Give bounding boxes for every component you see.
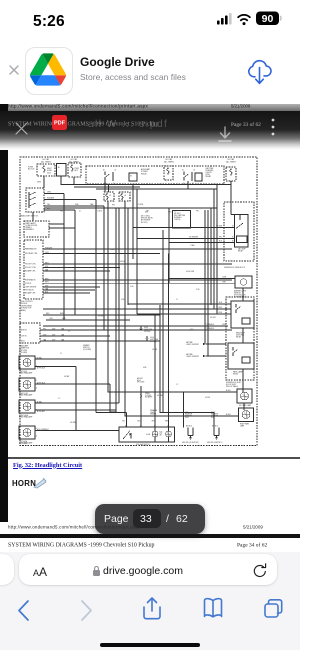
wire: right low beam feed A PPL/BLK [35, 383, 110, 385]
svg-text:T-0508: T-0508 [22, 443, 27, 445]
svg-text:FOG/TAIL IN: FOG/TAIL IN [25, 289, 34, 292]
wire: left high beam feed A DK GRN/WHT [35, 430, 119, 432]
wire row RED/BRN [43, 314, 160, 316]
overflow dots [269, 117, 277, 139]
svg-text:SP05 GRD (OR SUPPORT): SP05 GRD (OR SUPPORT) [182, 442, 199, 444]
svg-text:87: 87 [192, 183, 194, 185]
svg-text:BLOCK): BLOCK) [141, 222, 148, 224]
svg-text:C 1: C 1 [60, 353, 62, 355]
bulb: fog indicator lamp [166, 431, 172, 437]
underhood fuse block (dashed, right) [224, 202, 254, 261]
wire: relay K2 pin down [187, 181, 189, 189]
junction block B1 [57, 164, 67, 177]
diagram outer border [20, 157, 257, 446]
svg-text:AMBIENT LIGHT: AMBIENT LIGHT [234, 290, 246, 293]
wire: fuse F1 to headlight switch [43, 176, 45, 188]
svg-text:RUNNING: RUNNING [174, 217, 182, 219]
svg-text:SPEAKER: SPEAKER [150, 409, 158, 412]
svg-text:LT GRN/BLK: LT GRN/BLK [205, 328, 215, 330]
auxiliary power relay K1 contact [104, 172, 106, 175]
wire: left low beam feed B TAN [35, 358, 96, 360]
svg-text:C150: C150 [196, 289, 200, 291]
wire bundle (center-left verticals) [107, 201, 109, 392]
DRL support arrow 2 [206, 355, 226, 357]
wire: right high beam feed B TAN [35, 402, 119, 404]
svg-text:ORG: ORG [37, 182, 42, 184]
svg-text:HDLAMP CTRL: HDLAMP CTRL [25, 270, 36, 273]
right park lamp housing [239, 408, 254, 422]
horizontal rule under diagram [8, 457, 301, 459]
svg-text:LO: LO [109, 195, 112, 197]
wire: bottom feed to ground connector C1 [183, 392, 185, 428]
svg-text:WHT: WHT [45, 282, 49, 284]
faint download arrow [216, 125, 234, 145]
svg-text:SP06 GRD (SUPPORT L): SP06 GRD (SUPPORT L) [207, 442, 223, 444]
svg-text:A: A [36, 409, 37, 412]
svg-text:PARK LAMPS: PARK LAMPS [26, 222, 36, 225]
headlight switch S1 (dashed box) [26, 188, 44, 212]
svg-text:ILLUM: ILLUM [146, 434, 151, 436]
svg-text:C100: C100 [130, 286, 134, 288]
svg-text:TAN: TAN [90, 203, 94, 206]
wire: switch output to lamps [44, 199, 96, 201]
svg-text:SWITCH: SWITCH [83, 347, 90, 349]
svg-text:B: B [36, 380, 37, 382]
svg-text:(GROUND): (GROUND) [236, 335, 245, 337]
wire: fog switch GRY feed [154, 314, 156, 427]
svg-text:FOG/TLP CTRL: FOG/TLP CTRL [25, 264, 36, 266]
wire: left park lamp to right park lamp stub [243, 403, 245, 410]
bus wire (horizontal 3) [44, 207, 217, 209]
svg-text:FOG LAMP SWITCH: FOG LAMP SWITCH [136, 443, 149, 446]
svg-text:LEFT LOW: LEFT LOW [19, 371, 27, 373]
svg-text:C 2: C 2 [176, 384, 178, 386]
relay R1 (tail lamp relay) [235, 215, 249, 248]
wire: bottom feed to ground connector C2 [213, 413, 215, 428]
svg-text:DIMMER: DIMMER [83, 345, 90, 347]
svg-text:UNDERHOOD FUSE BLOCK: UNDERHOOD FUSE BLOCK [224, 267, 246, 269]
svg-text:0.5 BLK: 0.5 BLK [205, 397, 210, 399]
svg-text:LT GRN: LT GRN [137, 204, 144, 206]
wifi icon [238, 15, 250, 20]
svg-text:DRL RELAY CTRL: DRL RELAY CTRL [25, 252, 38, 255]
svg-text:LT BLU: LT BLU [97, 211, 102, 213]
svg-text:WIRING: WIRING [26, 227, 33, 229]
svg-text:HI/LO: HI/LO [137, 380, 142, 382]
svg-text:0.8 TAN: 0.8 TAN [64, 375, 69, 378]
svg-text:GRN: GRN [62, 318, 66, 320]
svg-text:SUPPORT: SUPPORT [211, 415, 218, 417]
note text (W/ DRL) box [173, 211, 191, 229]
svg-text:30: 30 [194, 170, 196, 172]
printed page title seen through overlay [8, 120, 218, 127]
lamp: right low beam headlamp housing [19, 378, 35, 391]
underhood electrical block (dashed, right lower) [226, 297, 254, 380]
svg-text:S236: S236 [143, 367, 147, 369]
fog lamp switch box [119, 427, 175, 442]
body control module connector (dashed box) [24, 240, 43, 299]
svg-text:HI/LO: HI/LO [21, 341, 26, 343]
svg-text:ALL TIMES: ALL TIMES [164, 160, 174, 163]
wire: switch bottom stub [32, 212, 34, 221]
auxiliary power relay K1 coil [129, 173, 137, 181]
svg-text:LIGHTS SUPPORT: LIGHTS SUPPORT [186, 356, 199, 358]
svg-text:0.8 RED: 0.8 RED [98, 316, 103, 318]
svg-text:RIGHT LOW: RIGHT LOW [19, 393, 28, 395]
svg-text:A PPL/BLK: A PPL/BLK [37, 381, 46, 384]
wire: switch output ORG [44, 193, 64, 195]
cellular signal bars [217, 13, 232, 25]
lamp bulb: right low beam [23, 381, 31, 389]
fuse F5 (dashed, mid) [104, 192, 114, 201]
svg-text:A DK GRN/WHT: A DK GRN/WHT [37, 428, 49, 431]
svg-text:A: A [36, 435, 37, 438]
wire row ORG/GRN [46, 319, 130, 321]
wire: fog switch PNK feed [168, 254, 170, 428]
dimmer switch connector box [20, 323, 40, 343]
svg-text:BLOCK: BLOCK [28, 169, 35, 171]
svg-text:WHT: WHT [222, 281, 226, 283]
wire: fuse F5 down to bus 3 [107, 201, 109, 208]
svg-text:RIGHT HIGH: RIGHT HIGH [19, 415, 28, 417]
svg-text:HI: HI [125, 195, 127, 197]
svg-text:PARK/BEAM SW: PARK/BEAM SW [25, 248, 37, 251]
wire: note box stub 1 [49, 223, 64, 225]
wire: junction B1 down [60, 176, 62, 185]
svg-text:DIMMER: DIMMER [150, 414, 157, 416]
wire row LT GRN/BLK into relay R3 [43, 325, 228, 327]
cloud download icon [246, 56, 273, 88]
red PDF badge [52, 115, 67, 130]
ground G104 [140, 326, 142, 328]
wire to left park lamp [108, 391, 237, 393]
ground G105 [146, 336, 148, 338]
svg-text:HDLAMP: HDLAMP [47, 197, 55, 200]
svg-text:PNK: PNK [60, 211, 63, 213]
svg-text:LIGHT SENSOR: LIGHT SENSOR [25, 287, 37, 289]
home indicator [100, 643, 200, 648]
svg-text:ORG: ORG [47, 192, 52, 194]
svg-text:PPL: PPL [219, 237, 222, 239]
svg-text:HIGH BEAM IN: HIGH BEAM IN [25, 279, 35, 282]
svg-text:PANEL): PANEL) [20, 309, 26, 312]
svg-text:TAIL LAMP: TAIL LAMP [238, 248, 246, 251]
svg-text:ALL TIMES: ALL TIMES [226, 160, 236, 163]
reload icon [252, 562, 268, 580]
svg-text:C 2: C 2 [68, 331, 70, 333]
wire: lamp2 drop [109, 384, 111, 412]
svg-text:DAYTIME: DAYTIME [186, 341, 193, 344]
svg-text:COLUMN): COLUMN) [19, 352, 27, 354]
svg-text:BLOCK (LEFT: BLOCK (LEFT [226, 384, 236, 386]
wire: right high beam A YEL/BLK [35, 409, 116, 411]
wire: relay K1 pin down [104, 181, 106, 193]
svg-text:(LEFT SIDE: (LEFT SIDE [150, 339, 158, 341]
svg-text:0.8 BLK: 0.8 BLK [120, 261, 125, 263]
svg-text:C 1: C 1 [176, 299, 178, 301]
battery with percent [256, 12, 279, 26]
svg-text:BLK A: BLK A [226, 413, 231, 416]
svg-text:LIGHTS: LIGHTS [150, 412, 155, 414]
fuse F4 (dashed) [226, 167, 236, 181]
svg-text:PNK: PNK [75, 204, 79, 206]
svg-text:C 1: C 1 [79, 211, 82, 213]
svg-text:BLK BLK: BLK BLK [186, 426, 192, 428]
svg-text:OF ENG): OF ENG) [144, 331, 151, 333]
svg-text:(FOR DRL) (ON: (FOR DRL) (ON [234, 295, 246, 297]
svg-text:87: 87 [113, 183, 115, 185]
wire rows into ambient light sensor [169, 278, 235, 280]
wire: misc vertical 76 [75, 367, 77, 431]
svg-text:HEADLAMP: HEADLAMP [236, 332, 245, 335]
svg-text:BLK: BLK [47, 208, 51, 210]
svg-text:PPL: PPL [43, 328, 46, 330]
lamp bulb: left high beam [23, 429, 31, 437]
left park lamp bulb [241, 392, 249, 400]
drive app icon [25, 47, 73, 95]
wire: sensor to relay R2 stub [242, 288, 244, 301]
svg-text:LT GRN: LT GRN [216, 226, 223, 228]
fuse F6 (dashed, mid) [119, 192, 130, 201]
wire: fuse F2 down [73, 177, 75, 185]
left park lamp housing [237, 389, 252, 403]
svg-text:30: 30 [115, 170, 117, 172]
svg-text:BLK A: BLK A [226, 389, 231, 392]
svg-text:(COLUMN): (COLUMN) [83, 349, 91, 351]
relay R3 (park lamp relay) [228, 343, 254, 369]
svg-text:LT BLU: LT BLU [190, 245, 195, 247]
svg-text:SENSOR: SENSOR [234, 293, 242, 295]
svg-text:HEADLIGHT SWITCH: HEADLIGHT SWITCH [20, 215, 39, 218]
lamp: left high beam headlamp housing [19, 426, 35, 439]
svg-text:0.8 TAN: 0.8 TAN [152, 348, 157, 351]
wire rows into relay R2 [128, 303, 231, 305]
toolbar icons [0, 596, 300, 630]
svg-text:WHT: WHT [45, 262, 49, 264]
svg-text:C 2: C 2 [58, 398, 60, 400]
svg-text:ADJUST: ADJUST [137, 377, 143, 380]
wire: switch ground BLK [44, 209, 75, 211]
svg-text:(LEFT SIDE: (LEFT SIDE [144, 329, 152, 331]
underhood fuse block (top, dashed) [86, 166, 224, 184]
svg-text:PPL: PPL [196, 211, 199, 213]
svg-text:0.8 GRN: 0.8 GRN [70, 422, 76, 424]
svg-text:OF ENG): OF ENG) [150, 341, 157, 343]
svg-text:RELAY: RELAY [233, 373, 239, 376]
fuse F3 PWR LP JB 32A (dashed) [164, 166, 173, 180]
faint drive header filename [88, 119, 278, 130]
svg-text:RIGHT PARK: RIGHT PARK [240, 423, 249, 426]
svg-text:LIGHTS SUPPORT: LIGHTS SUPPORT [186, 344, 199, 346]
svg-text:UP DOWN: UP DOWN [137, 382, 144, 384]
svg-text:30: 30 [232, 226, 234, 228]
svg-text:CLOSED: CLOSED [145, 395, 152, 397]
svg-text:BLK BLK: BLK BLK [212, 426, 218, 428]
svg-text:BRN: BRN [60, 313, 64, 315]
svg-text:A: A [36, 365, 37, 368]
wire: left low beam A PPL/BLK [35, 366, 76, 368]
svg-text:PPL: PPL [112, 205, 115, 207]
svg-text:85: 85 [104, 183, 106, 185]
wire bundle (center-right verticals) [204, 210, 206, 344]
svg-text:B: B [36, 358, 37, 360]
svg-text:LIGHTS): LIGHTS) [174, 219, 181, 221]
svg-text:IND: IND [160, 435, 162, 437]
svg-text:85: 85 [130, 176, 132, 178]
svg-text:FOG SLP CTRL: FOG SLP CTRL [25, 267, 36, 269]
svg-text:(W/ DRL): (W/ DRL) [174, 213, 181, 215]
svg-text:HIGH IN: HIGH IN [21, 330, 27, 332]
svg-text:A: A [36, 387, 37, 390]
svg-text:S210: S210 [121, 299, 125, 301]
svg-text:0.8 DK GRN: 0.8 DK GRN [186, 271, 194, 273]
svg-text:UNDERHOOD ELEC: UNDERHOOD ELEC [226, 382, 242, 384]
svg-text:85: 85 [232, 237, 234, 239]
lamp bulb: left low beam [23, 359, 31, 367]
fog lamp switch contact [124, 431, 131, 439]
fuse F2 (dashed) [68, 163, 81, 177]
fuse F1 HDLP 20A (dashed fuse block) [37, 164, 55, 176]
svg-text:PNK: PNK [165, 420, 168, 422]
svg-text:HDLAMP CTRL: HDLAMP CTRL [25, 292, 36, 295]
wire: relay R3 down to park lamp [242, 369, 244, 392]
DRL relay K2 contact [183, 172, 185, 175]
svg-text:LEFT HIGH: LEFT HIGH [19, 441, 27, 443]
svg-text:RELAY: RELAY [206, 175, 212, 178]
svg-text:0.8 ORG: 0.8 ORG [210, 317, 217, 319]
lamp: left low beam headlamp housing [19, 356, 35, 369]
svg-text:OPEN/: OPEN/ [145, 393, 150, 395]
relay R2 (headlamp relay) [231, 301, 254, 328]
headlight switch contacts [29, 193, 35, 196]
svg-text:LT GRN/BLK: LT GRN/BLK [205, 324, 215, 326]
svg-text:S157: S157 [190, 329, 194, 331]
svg-text:STOP IN: STOP IN [25, 283, 31, 285]
svg-text:C 2: C 2 [174, 211, 177, 213]
left tab sliver [0, 554, 14, 585]
svg-text:SUPPORT: SUPPORT [185, 415, 192, 417]
bulb: illumination lamp [152, 431, 158, 437]
wire: fog switch YEL feed [96, 412, 127, 414]
svg-text:B: B [36, 428, 37, 430]
wire rows into relay R1 [133, 227, 235, 229]
svg-text:LEFT PARK LAMP: LEFT PARK LAMP [239, 404, 251, 407]
svg-text:S204: S204 [111, 249, 115, 251]
svg-text:GRY: GRY [152, 420, 155, 422]
wire: fuse F4 down to relay R1 [230, 181, 232, 215]
svg-text:DAYTIME: DAYTIME [186, 353, 193, 356]
svg-text:G105: G105 [150, 337, 154, 339]
ambient light sensor [235, 276, 252, 288]
lamp bulb: right high beam [23, 403, 31, 411]
wire to right park lamp [125, 415, 239, 417]
svg-text:G103: G103 [185, 417, 189, 419]
connector C100 [140, 386, 142, 427]
big translucent close X [14, 121, 29, 136]
small horn doodle icon [32, 476, 48, 490]
wire: relay R2 to relay R3 stub [242, 328, 244, 343]
right park lamp bulb [242, 411, 250, 419]
wire bundle (center verticals) [159, 305, 161, 413]
svg-text:LOW IN: LOW IN [21, 336, 26, 338]
svg-text:BLK: BLK [138, 420, 141, 422]
svg-text:G104: G104 [144, 327, 148, 329]
svg-text:B: B [36, 402, 37, 404]
connector note box (dashed) [24, 221, 49, 237]
svg-text:PNK/WHT: PNK/WHT [45, 247, 52, 249]
svg-text:86: 86 [103, 170, 105, 172]
bus wire (top horizontal 2b) [74, 186, 140, 188]
svg-text:YEL: YEL [47, 204, 50, 206]
svg-text:ALL TIMES: ALL TIMES [41, 160, 51, 163]
svg-text:ORG: ORG [168, 212, 172, 214]
bus wire (top horizontal 2) [96, 188, 217, 190]
svg-text:RELAY: RELAY [141, 172, 148, 175]
DRL relay K2 coil [195, 173, 202, 181]
svg-text:GRY: GRY [146, 211, 149, 213]
bus wire (top horizontal 1) [61, 184, 231, 186]
wire: fog switch internal drops [154, 427, 156, 431]
lamp: right high beam headlamp housing [19, 400, 35, 413]
svg-text:JB: JB [58, 167, 61, 169]
DRL support arrow 1 [206, 343, 226, 345]
svg-text:DOME IN FUSE: DOME IN FUSE [26, 225, 38, 227]
wire: note box stub 2 [49, 227, 75, 229]
svg-text:86: 86 [232, 241, 234, 243]
wire: fuse F4 into relay R1 [231, 214, 235, 216]
svg-text:86: 86 [182, 170, 184, 172]
svg-text:85: 85 [183, 183, 185, 185]
svg-text:ORG: ORG [49, 318, 53, 320]
svg-text:0.8 BRN: 0.8 BRN [157, 395, 162, 397]
svg-text:RED: RED [46, 313, 50, 315]
wire: fuse F6 down to bus 3 [124, 201, 126, 208]
svg-text:YEL: YEL [122, 420, 125, 422]
